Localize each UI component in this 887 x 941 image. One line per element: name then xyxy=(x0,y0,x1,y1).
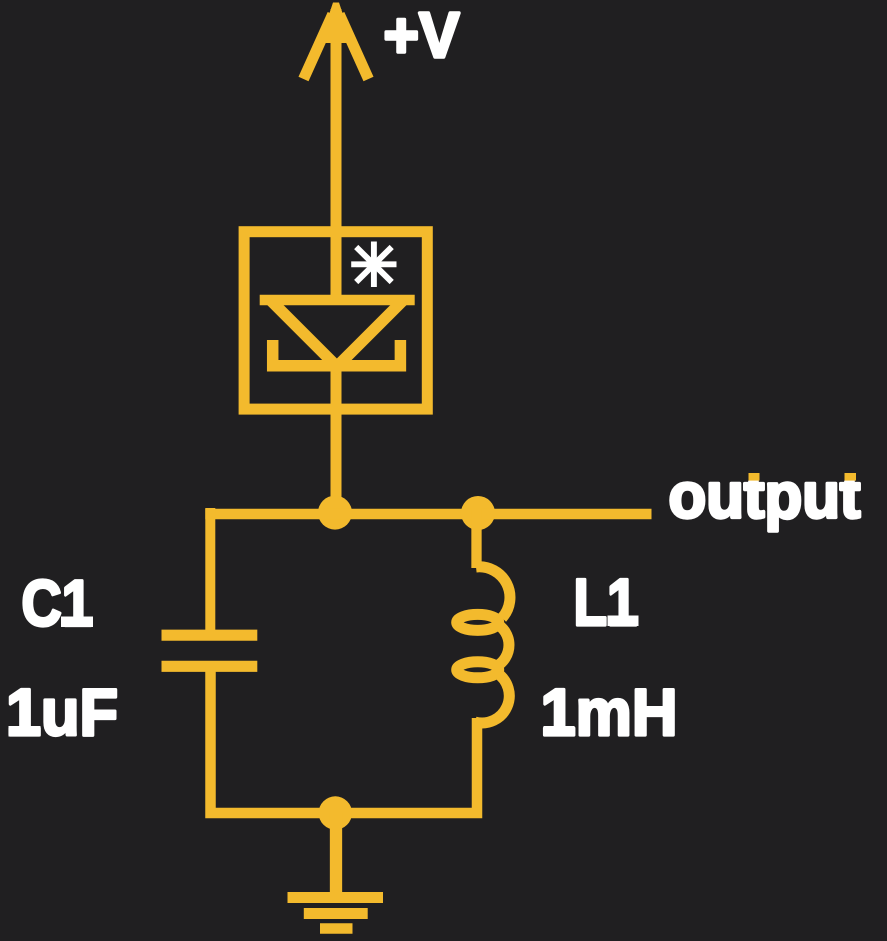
node B junction dot (top right) xyxy=(461,496,495,530)
inductor L1 coil xyxy=(457,567,510,723)
svg-text:C1: C1 xyxy=(22,567,93,640)
wire: C1 branch top xyxy=(205,508,215,631)
label 1mH foot of 1 xyxy=(544,726,575,737)
asterisk (noise) mark xyxy=(351,242,396,288)
capacitor C1 bottom plate xyxy=(162,661,258,672)
svg-text:1uF: 1uF xyxy=(6,675,118,749)
svg-text:L1: L1 xyxy=(574,565,638,639)
capacitor C1 top plate xyxy=(162,630,258,641)
wire: main vertical from +V arrow down to diode anode bar xyxy=(331,9,342,303)
power arrow solid tip fill xyxy=(320,3,353,44)
wire: ground stem xyxy=(330,813,342,898)
label 1uF foot of 1 xyxy=(9,726,41,737)
wire: from diode cathode down to top node xyxy=(331,363,342,513)
wire: horizontal output bus xyxy=(205,509,651,519)
diode D1 triangle (anode) xyxy=(260,300,415,371)
node A junction dot (top left) xyxy=(318,496,352,530)
label C1 foot of 1 xyxy=(61,617,93,628)
power arrow +V head xyxy=(304,14,369,79)
yellow notch on first t xyxy=(749,473,760,481)
svg-text:output: output xyxy=(669,460,861,532)
ground symbol xyxy=(288,898,384,929)
node C junction dot (bottom) xyxy=(319,796,352,829)
box around diode U1 xyxy=(244,232,427,409)
svg-text:+V: +V xyxy=(384,0,460,71)
svg-text:1mH: 1mH xyxy=(541,675,678,749)
wire: L1 branch top xyxy=(471,508,481,568)
yellow notch on second t xyxy=(845,473,857,481)
wire: C1 branch bottom and bottom bus xyxy=(211,666,478,813)
label L1 foot of 1 xyxy=(608,616,639,627)
diode D1 cathode bracket xyxy=(273,340,401,366)
